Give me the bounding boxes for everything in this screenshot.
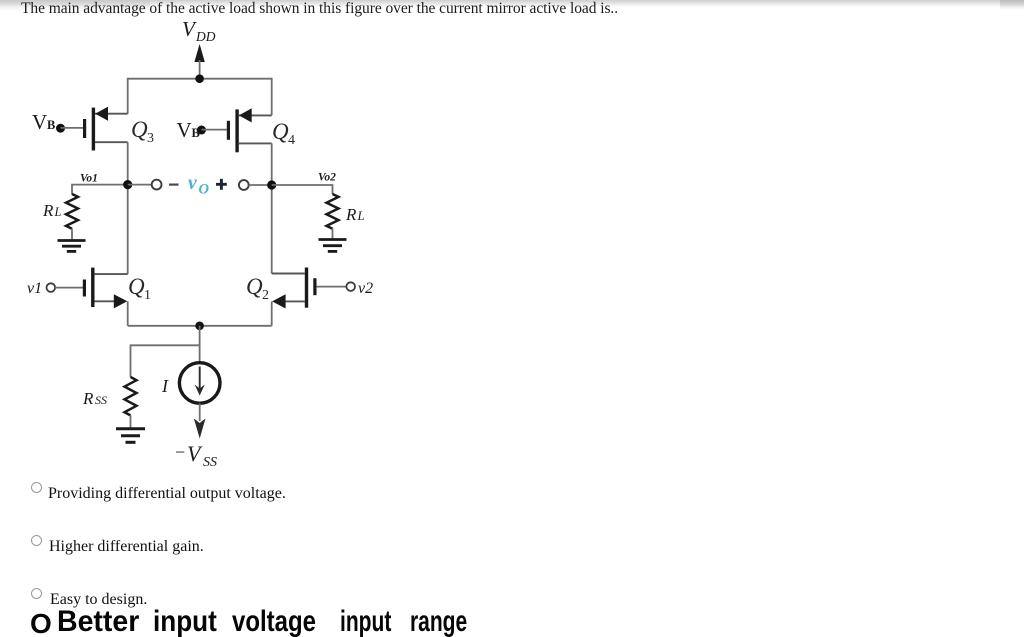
node VB label right — [177, 118, 200, 142]
svg-text:O: O — [199, 182, 210, 198]
transistor Q2 — [272, 268, 315, 309]
svg-text:v2: v2 — [358, 280, 373, 297]
VDD arrow — [194, 44, 204, 79]
transistor Q4 — [228, 108, 271, 152]
wire tail stem — [199, 326, 201, 362]
node VB label left — [32, 110, 55, 134]
wire Vo1 to RL — [72, 185, 128, 195]
svg-text:L: L — [357, 209, 365, 223]
svg-text:R: R — [345, 205, 357, 224]
svg-text:SS: SS — [95, 393, 107, 407]
resistor RL right — [327, 194, 339, 229]
wire right vertical upper — [271, 78, 273, 116]
label vO (output voltage, cyan) — [188, 173, 210, 198]
svg-text:V: V — [32, 110, 47, 134]
svg-text:v1: v1 — [27, 280, 42, 297]
resistor Rss — [125, 377, 137, 415]
wire Rss to ground — [130, 415, 132, 427]
option 2 radio — [31, 535, 43, 547]
svg-text:R: R — [82, 389, 94, 408]
option 3 text — [50, 591, 147, 609]
label RL right — [345, 205, 365, 224]
svg-text:v: v — [188, 173, 197, 194]
wire top rail — [128, 78, 272, 80]
wire Q4 gate lead — [202, 129, 227, 131]
svg-text:I: I — [161, 376, 169, 396]
handwritten answer line — [30, 608, 52, 637]
svg-text:Vo1: Vo1 — [80, 173, 98, 185]
ground right RL — [319, 240, 347, 252]
current source I — [179, 363, 220, 404]
top edge shading — [0, 0, 1024, 7]
label Rss — [82, 389, 107, 408]
ground Rss — [116, 429, 145, 443]
question text — [21, 0, 618, 18]
wire branch to Rss — [131, 345, 200, 377]
svg-text:−: − — [175, 442, 185, 462]
wire left vertical upper — [127, 78, 129, 114]
option 3 radio — [31, 588, 43, 600]
svg-text:B: B — [47, 118, 55, 132]
label Q4 — [272, 119, 295, 148]
svg-text:V: V — [177, 118, 192, 142]
terminal v2 circle — [346, 282, 355, 291]
label Q3 — [131, 117, 154, 146]
terminal plus circle — [239, 180, 249, 190]
svg-text:SS: SS — [203, 455, 217, 470]
wire right vertical lower — [271, 301, 273, 325]
node VDD label — [182, 17, 216, 44]
transistor Q1 — [84, 268, 127, 309]
svg-text:V: V — [187, 441, 203, 466]
option 1 text — [48, 485, 286, 503]
resistor RL left — [66, 194, 78, 229]
node VB terminal dot left — [56, 124, 65, 133]
svg-text:R: R — [42, 201, 54, 220]
svg-text:4: 4 — [288, 133, 295, 148]
node Vo1 junction — [123, 180, 132, 189]
label -VSS — [175, 441, 217, 470]
svg-text:Q: Q — [246, 274, 263, 299]
wire plus terminal to Vo2 — [249, 184, 272, 186]
junction tail — [195, 322, 204, 331]
ground left RL — [58, 241, 86, 252]
label Q2 — [246, 274, 269, 303]
wire v1 gate lead — [55, 287, 83, 289]
wire right vertical mid — [271, 143, 273, 273]
wire current source to VSS — [199, 403, 201, 421]
svg-text:Q: Q — [128, 274, 145, 299]
wire left vertical mid — [127, 142, 129, 274]
label Q1 — [128, 274, 151, 303]
transistor Q3 — [85, 107, 128, 151]
option 1 radio — [31, 482, 43, 494]
wire Vo2 to RL — [272, 185, 333, 194]
svg-text:3: 3 — [147, 131, 154, 146]
wire left vertical lower — [127, 301, 129, 326]
svg-text:Vo2: Vo2 — [318, 172, 336, 184]
wire Vo1 to minus terminal — [128, 184, 152, 186]
junction top — [195, 74, 204, 83]
arrow to -VSS — [194, 419, 206, 439]
svg-text:2: 2 — [262, 288, 269, 303]
node VB terminal dot right — [197, 126, 206, 135]
minus sign — [169, 184, 179, 186]
terminal minus circle — [152, 180, 162, 190]
svg-text:1: 1 — [144, 288, 151, 303]
wire Q2 gate lead — [317, 286, 347, 288]
label RL left — [42, 201, 62, 220]
svg-text:DD: DD — [195, 29, 216, 44]
option 2 text — [49, 538, 204, 556]
svg-text:Q: Q — [131, 117, 148, 142]
wire bottom rail — [128, 325, 272, 327]
svg-text:V: V — [182, 17, 197, 41]
wire RL right to ground — [332, 229, 334, 239]
svg-text:Q: Q — [272, 119, 289, 144]
wire Q3 gate lead — [61, 127, 84, 129]
svg-text:L: L — [54, 205, 62, 219]
wire RL left to ground — [71, 229, 73, 240]
terminal v1 circle — [47, 283, 56, 292]
plus sign — [216, 179, 227, 190]
node Vo2 junction — [267, 180, 276, 189]
